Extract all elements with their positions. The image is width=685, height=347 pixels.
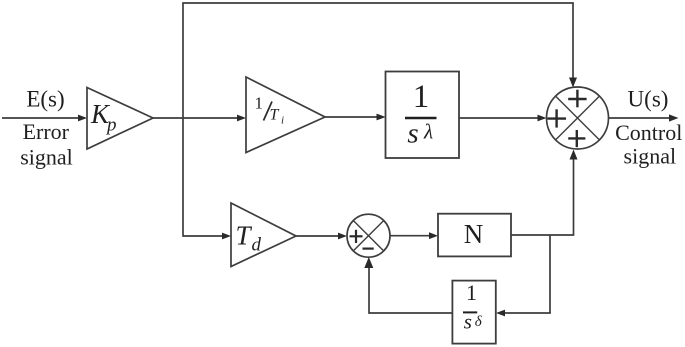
svg-text:signal: signal — [624, 143, 677, 168]
svg-text:p: p — [105, 115, 117, 136]
svg-text:T: T — [236, 221, 253, 251]
svg-text:1: 1 — [255, 94, 264, 113]
wire Kp output to branch and integrator path — [153, 117, 239, 119]
gain block Kp (triangle) — [87, 88, 153, 150]
minus sign bottom of small summer — [363, 248, 374, 250]
wire branch vertical at x=183 — [182, 3, 184, 237]
arrow into small summer — [338, 233, 347, 240]
plus sign bottom of summer — [568, 130, 585, 147]
arrow into N — [429, 232, 438, 239]
svg-text:1: 1 — [413, 79, 430, 115]
plus sign left of summer — [547, 109, 566, 127]
svg-text:1: 1 — [466, 280, 477, 305]
svg-text:δ: δ — [475, 314, 483, 330]
arrow into summer top — [569, 78, 577, 88]
label 1/s^delta — [463, 280, 483, 333]
wire Td to small summer — [296, 235, 341, 237]
wire 1/Ti to 1/s^lambda — [325, 116, 378, 118]
wire up into summer bottom — [573, 156, 575, 236]
svg-text:N: N — [464, 219, 484, 249]
wire input E(s) — [2, 117, 80, 119]
summing junction U2 (derivative) — [347, 214, 390, 257]
wire junction down to 1/s^delta — [549, 235, 551, 313]
svg-text:s: s — [464, 309, 472, 333]
node label Error signal — [20, 119, 73, 169]
gain block 1/Ti (triangle) — [246, 77, 325, 153]
wire small summer to N — [390, 235, 432, 237]
svg-text:Error: Error — [23, 119, 70, 144]
svg-text:λ: λ — [423, 119, 433, 143]
label Td — [236, 221, 262, 256]
block 1/s^lambda — [386, 72, 460, 159]
svg-text:d: d — [252, 235, 262, 256]
svg-text:U(s): U(s) — [628, 87, 669, 112]
svg-text:Control: Control — [615, 120, 682, 145]
node label Control signal — [615, 120, 682, 168]
arrow output — [669, 114, 679, 121]
arrow into 1/s^lambda — [377, 114, 386, 121]
wire summer output U(s) — [609, 117, 672, 119]
arrow into summer bottom — [570, 150, 578, 160]
svg-text:signal: signal — [20, 144, 73, 169]
wire top rail drop into summer — [572, 3, 574, 80]
label 1/Ti — [255, 94, 285, 127]
label Kp — [90, 99, 117, 135]
block 1/s^delta — [452, 281, 495, 344]
wire 1/s^lambda to summer — [459, 117, 540, 119]
wire top rail — [182, 2, 574, 4]
arrow into Kp — [78, 115, 87, 122]
arrow into summer left — [538, 115, 547, 122]
arrow into 1/s^delta right side — [496, 310, 505, 317]
arrow into 1/Ti — [237, 115, 246, 122]
gain block Td (triangle) — [231, 203, 296, 267]
svg-text:s: s — [407, 118, 418, 150]
wire N output to summer bottom — [511, 234, 574, 236]
plus sign left of small summer — [350, 230, 363, 243]
arrow into Td — [222, 233, 231, 240]
wire 1/s^delta output feedback to small summer — [369, 312, 452, 314]
summing junction U1 (main) — [547, 87, 609, 149]
svg-text:i: i — [281, 115, 284, 127]
svg-text:E(s): E(s) — [26, 87, 64, 112]
arrow into small summer bottom — [364, 257, 373, 268]
svg-text:T: T — [270, 107, 280, 124]
wire branch to Td — [183, 235, 225, 237]
block N — [438, 214, 511, 257]
plus sign top of summer — [568, 90, 586, 108]
label 1/s^lambda — [405, 79, 437, 150]
